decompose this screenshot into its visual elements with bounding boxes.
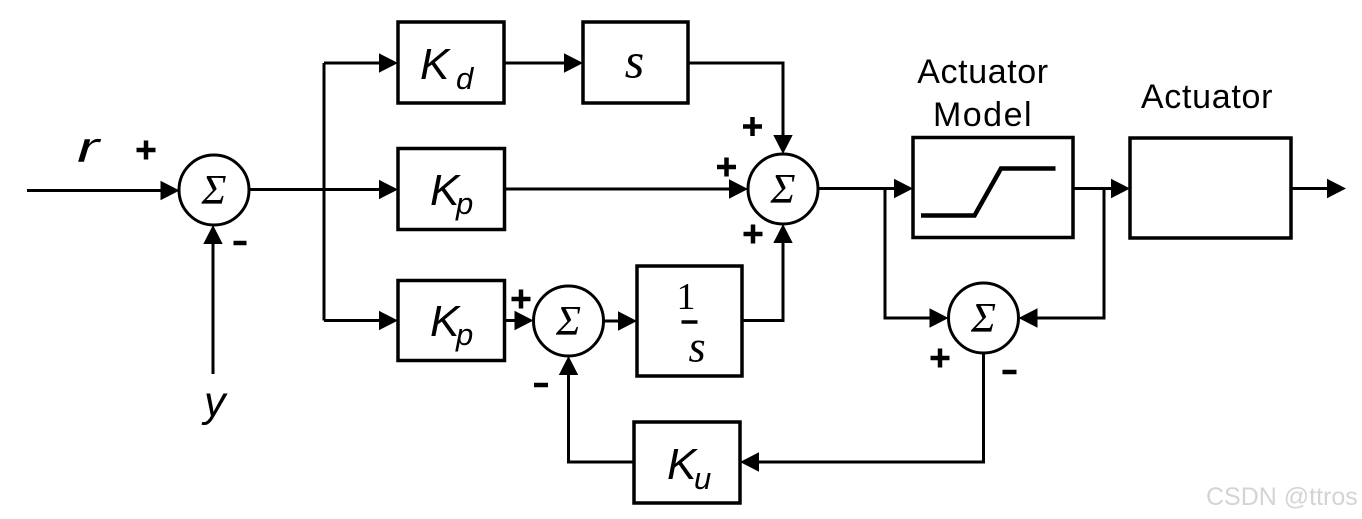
svg-text:s: s — [625, 33, 644, 89]
wire r input — [27, 181, 180, 200]
wire actuator model to actuator — [1073, 179, 1130, 198]
wire Kp bottom to U3 — [505, 311, 534, 330]
plus sign at U4 left input — [931, 349, 950, 368]
svg-text:p: p — [455, 317, 473, 352]
svg-text:p: p — [455, 186, 473, 221]
wire branch to bottom Kp — [324, 311, 398, 330]
block actuator model — [913, 138, 1073, 238]
summing junction U4 — [949, 283, 1019, 353]
wire integrator to U2 bottom — [742, 224, 793, 321]
svg-text:y: y — [201, 378, 228, 426]
block Ku — [634, 422, 740, 503]
summing junction U2 — [748, 154, 818, 224]
wire tap to U4 left — [885, 189, 949, 328]
minus sign at U3 bottom input — [534, 383, 548, 388]
wire Ku to U3 bottom — [559, 356, 634, 462]
minus sign at U4 right input — [1003, 370, 1017, 375]
plus sign at r input — [137, 141, 156, 160]
wire U2 output to actuator model — [818, 179, 913, 198]
plus sign at U2 left input — [717, 158, 736, 177]
svg-text:u: u — [694, 461, 711, 496]
svg-text:Model: Model — [933, 96, 1033, 134]
block integrator 1/s — [637, 266, 742, 376]
svg-text:r: r — [77, 124, 102, 172]
summing junction U3 — [534, 286, 604, 356]
minus sign at y input — [234, 241, 247, 246]
block actuator — [1130, 138, 1291, 238]
wire s to U2 top — [688, 63, 793, 154]
plus sign at U3 left input — [512, 290, 531, 309]
svg-text:K: K — [420, 40, 451, 89]
svg-text:Actuator: Actuator — [917, 53, 1048, 91]
wire branch to Kd — [324, 53, 398, 72]
wire U3 to integrator — [604, 311, 638, 330]
summing junction U1 — [179, 155, 249, 225]
svg-text:Σ: Σ — [555, 299, 581, 345]
wire U4 output to Ku — [740, 353, 984, 472]
wire Kd to s — [504, 53, 583, 72]
wire y input — [203, 225, 222, 374]
svg-text:1: 1 — [677, 276, 696, 318]
block Kp middle — [398, 149, 505, 230]
wire U1 output to middle Kp — [249, 180, 398, 199]
wire actuator output — [1291, 179, 1346, 198]
block Kd — [398, 22, 504, 103]
svg-text:CSDN @ttros: CSDN @ttros — [1206, 483, 1358, 511]
label Actuator Model — [917, 53, 1048, 134]
wire Kp middle to U2 — [505, 179, 749, 198]
svg-text:s: s — [688, 323, 705, 372]
svg-text:Σ: Σ — [770, 167, 796, 213]
svg-text:Σ: Σ — [970, 296, 996, 342]
wire tap to U4 right — [1019, 189, 1105, 328]
svg-text:Σ: Σ — [201, 168, 227, 214]
plus sign at U2 top input — [743, 117, 762, 136]
svg-text:d: d — [456, 61, 475, 96]
svg-text:Actuator: Actuator — [1141, 78, 1273, 116]
plus sign at U2 bottom input — [744, 225, 763, 244]
block Kp bottom — [398, 281, 505, 361]
block s — [583, 22, 688, 103]
wire branch vertical — [323, 63, 326, 321]
